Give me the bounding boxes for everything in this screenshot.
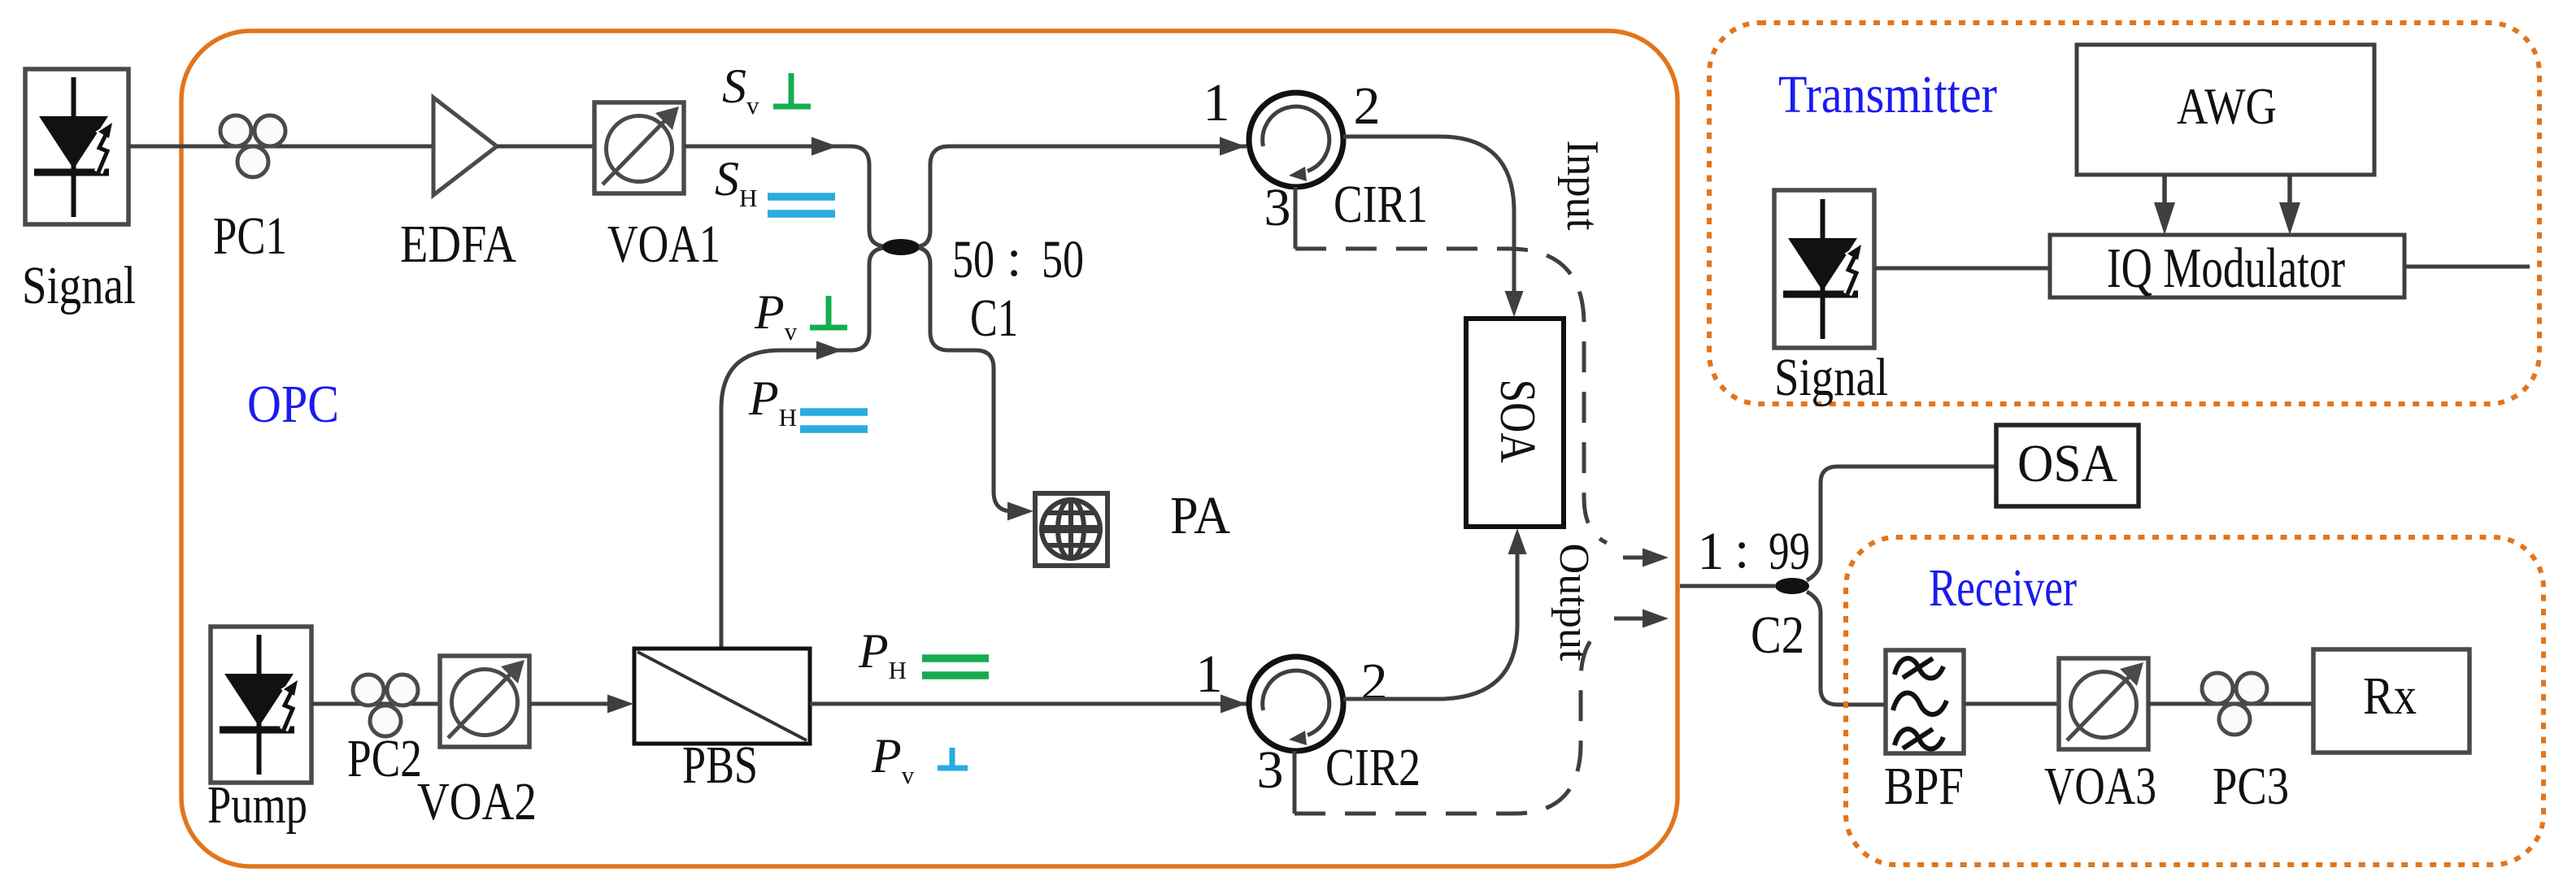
OPC dashed-region box [181, 31, 1677, 866]
svg-text:AWG: AWG [2177, 77, 2277, 135]
svg-text:VOA1: VOA1 [607, 215, 720, 274]
wire VOA3 to Rx [2148, 702, 2313, 706]
wire BPF to VOA3 [1964, 702, 2059, 706]
svg-text:C2: C2 [1751, 605, 1804, 665]
attenuator VOA3 [2059, 658, 2148, 749]
svg-text:BPF: BPF [1884, 757, 1964, 816]
svg-text:1: 1 [1203, 73, 1230, 132]
arrow into C1 top input [812, 137, 838, 156]
wire PBS to CIR2 port 1 [810, 702, 1248, 706]
SOA box [1466, 319, 1564, 527]
wire C2 lower branch to BPF [1807, 592, 1886, 705]
wire VOA1 to coupler C1 top input [684, 146, 884, 246]
svg-text:IQ Modulator: IQ Modulator [2107, 237, 2345, 300]
svg-text:50: 50 [1042, 230, 1084, 289]
wire EDFA to VOA1 [497, 145, 594, 149]
svg-text::: : [1007, 228, 1021, 288]
laser Pump (diode symbol) [220, 635, 298, 775]
symbol parallel (green) for P_H [922, 658, 989, 675]
wire C2 upper branch to OSA [1807, 467, 1996, 580]
svg-text:3: 3 [1264, 178, 1291, 237]
output arrow lower [1614, 617, 1646, 621]
svg-text::: : [1734, 520, 1749, 579]
laser Signal (diode symbol) [34, 77, 112, 217]
wire pump arm into coupler C1 bottom input [721, 248, 884, 649]
svg-text:CIR1: CIR1 [1334, 175, 1428, 234]
svg-text:Signal: Signal [22, 256, 136, 315]
svg-text:Input: Input [1557, 141, 1608, 231]
arrow AWG to IQ modulator left [2162, 175, 2167, 205]
wire C1 top output to CIR1 port 1 [919, 146, 1247, 246]
svg-text:PC1: PC1 [213, 206, 287, 266]
wire CIR2 port 2 to SOA bottom [1343, 554, 1517, 699]
circulator CIR2 [1249, 657, 1343, 751]
svg-text:Signal: Signal [1774, 348, 1888, 407]
polarizing beam splitter PBS box [634, 649, 810, 744]
laser Signal transmitter (box) [1774, 190, 1874, 348]
svg-text:2: 2 [1354, 76, 1381, 136]
svg-text:OPC: OPC [247, 375, 339, 434]
arrow AWG to IQ modulator right [2287, 175, 2292, 205]
attenuator VOA2 [440, 656, 529, 747]
svg-text:2: 2 [1361, 653, 1388, 712]
svg-text:3: 3 [1257, 740, 1284, 800]
amplifier EDFA [433, 98, 497, 195]
svg-text:PBS: PBS [682, 736, 758, 795]
arrow into C1 bottom input [816, 341, 842, 360]
svg-text:EDFA: EDFA [400, 215, 516, 274]
svg-text:OSA: OSA [2017, 434, 2117, 493]
OSA box [1996, 425, 2139, 506]
circulator CIR1 [1249, 93, 1343, 187]
arrow into SOA top [1505, 291, 1524, 317]
svg-text:50: 50 [952, 230, 994, 289]
AWG box [2077, 45, 2374, 175]
arrow into PA [1007, 502, 1033, 521]
svg-text:CIR2: CIR2 [1325, 738, 1421, 797]
polarization analyzer PA box [1035, 493, 1107, 566]
svg-text:PA: PA [1170, 486, 1230, 545]
polarization controller PC2 [353, 675, 418, 736]
arrow into CIR2 port 1 [1221, 695, 1247, 714]
laser Signal transmitter (diode symbol) [1783, 199, 1861, 339]
svg-text:Rx: Rx [2363, 666, 2417, 726]
filter BPF box [1886, 650, 1964, 753]
svg-text:1: 1 [1698, 522, 1725, 581]
BPF wave icons [1893, 658, 1947, 749]
arrow into SOA bottom [1508, 528, 1527, 554]
arrow into PBS [607, 695, 633, 714]
svg-text:PC3: PC3 [2213, 757, 2289, 816]
symbol parallel (cyan) for S_H [768, 197, 835, 214]
svg-text:Transmitter: Transmitter [1778, 65, 1997, 124]
svg-text:Receiver: Receiver [1929, 558, 2077, 618]
svg-text:C1: C1 [970, 289, 1018, 348]
Transmitter dashed box [1709, 23, 2539, 404]
symbol parallel (cyan) for P_H [800, 412, 868, 429]
symbol perpendicular (green) for S_v [773, 73, 811, 106]
wire CIR1 port 3 stub [1294, 187, 1298, 249]
svg-text:SOA: SOA [1490, 380, 1545, 463]
symbol perpendicular (green) for P_v [810, 296, 847, 328]
wire CIR1 port 2 to SOA input [1343, 137, 1514, 291]
wire C1 bottom output to PA [919, 248, 1026, 511]
polarization controller PC3 [2202, 673, 2267, 735]
PA globe icon [1042, 498, 1100, 560]
wire IQ modulator output [2404, 265, 2530, 269]
svg-text:VOA3: VOA3 [2044, 757, 2156, 816]
svg-text:VOA2: VOA2 [417, 772, 537, 831]
laser Pump (box) [211, 627, 311, 783]
receiver Rx box [2313, 649, 2469, 753]
dashed wire CIR1 port 3 to OPC output (upper) [1295, 249, 1607, 543]
wire Signal to EDFA [128, 145, 435, 149]
polarization controller PC1 [220, 115, 285, 177]
coupler C1 fused ellipse [882, 239, 920, 255]
symbol perpendicular (cyan) for P_v [938, 748, 968, 768]
wire Signal to IQ modulator [1874, 267, 2050, 271]
svg-text:PC2: PC2 [347, 729, 422, 788]
svg-text:Pump: Pump [207, 775, 307, 835]
coupler C2 fused ellipse [1775, 578, 1809, 594]
svg-text:1: 1 [1196, 644, 1223, 704]
wire VOA2 to PBS [529, 702, 608, 706]
svg-text:99: 99 [1769, 522, 1810, 581]
output arrow upper [1623, 556, 1646, 560]
laser Signal (box) [25, 69, 128, 224]
wire CIR2 port 3 stub [1293, 751, 1297, 814]
attenuator VOA1 [594, 102, 684, 193]
arrow into CIR1 port 1 [1220, 137, 1246, 156]
Receiver dashed box [1846, 537, 2543, 865]
PBS diagonal [637, 652, 807, 740]
dashed wire CIR2 port 3 to OPC output (lower) [1295, 635, 1595, 814]
wire Pump to VOA2 [311, 702, 442, 706]
IQ Modulator box [2050, 235, 2404, 297]
wire OPC output into coupler C2 [1680, 584, 1775, 588]
